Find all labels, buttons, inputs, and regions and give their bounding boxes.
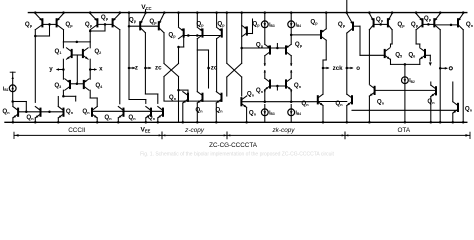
svg-text:Qn: Qn	[148, 114, 156, 121]
svg-text:y: y	[49, 66, 53, 73]
svg-text:Qn: Qn	[104, 114, 112, 121]
svg-text:CCCII: CCCII	[68, 127, 86, 134]
svg-text:Qp: Qp	[129, 17, 137, 24]
svg-text:zc: zc	[155, 65, 162, 72]
svg-text:IB3: IB3	[269, 22, 275, 28]
svg-text:ZC-CG-CCCCTA: ZC-CG-CCCCTA	[209, 142, 258, 149]
svg-text:Qp: Qp	[295, 41, 303, 48]
svg-text:Qn: Qn	[195, 107, 203, 114]
svg-text:o: o	[356, 65, 360, 72]
svg-text:IB2: IB2	[409, 78, 415, 84]
svg-text:Qn: Qn	[294, 82, 302, 89]
svg-text:z: z	[135, 65, 138, 72]
svg-text:Qp: Qp	[149, 18, 157, 25]
svg-text:Q5: Q5	[395, 51, 402, 58]
svg-text:Qn: Qn	[82, 108, 90, 115]
svg-text:Qp: Qp	[338, 21, 346, 28]
svg-text:x: x	[99, 66, 103, 73]
svg-text:Qn: Qn	[256, 87, 264, 94]
svg-text:Q3: Q3	[54, 82, 61, 89]
svg-text:Qp: Qp	[252, 20, 260, 27]
svg-text:Qp: Qp	[85, 21, 93, 28]
svg-text:Qn: Qn	[377, 99, 385, 106]
svg-text:Qn: Qn	[427, 98, 435, 105]
svg-text:VEE: VEE	[141, 126, 151, 133]
svg-text:Qp: Qp	[256, 42, 264, 49]
svg-text:IB4: IB4	[296, 110, 302, 116]
svg-text:Qp: Qp	[25, 21, 33, 28]
svg-text:Q1: Q1	[55, 48, 62, 55]
svg-text:IB3: IB3	[269, 110, 275, 116]
svg-text:Qn: Qn	[66, 108, 74, 115]
svg-text:Q2: Q2	[94, 48, 101, 55]
svg-text:Qn: Qn	[2, 108, 10, 115]
svg-text:Qn: Qn	[169, 94, 177, 101]
svg-text:IB1: IB1	[3, 86, 9, 92]
svg-text:Fig. 1. Schematic of the bipol: Fig. 1. Schematic of the bipolar impleme…	[140, 152, 334, 158]
svg-text:Qp: Qp	[424, 15, 432, 22]
svg-text:OTA: OTA	[397, 127, 410, 134]
svg-text:Qp: Qp	[310, 18, 318, 25]
svg-text:VCC: VCC	[141, 4, 151, 11]
svg-text:Qn: Qn	[465, 106, 473, 113]
svg-text:Qp: Qp	[217, 21, 225, 28]
svg-text:Qn: Qn	[249, 110, 257, 117]
svg-text:Qp: Qp	[376, 16, 384, 23]
svg-text:Qn: Qn	[215, 107, 223, 114]
svg-text:Qp: Qp	[168, 32, 176, 39]
svg-text:zck: zck	[333, 65, 344, 72]
svg-text:IB4: IB4	[296, 22, 302, 28]
svg-text:z-copy: z-copy	[184, 127, 205, 134]
svg-text:Qn: Qn	[128, 114, 136, 121]
svg-text:zc: zc	[211, 65, 218, 72]
svg-text:Qn: Qn	[301, 100, 309, 107]
svg-text:Qn: Qn	[466, 21, 474, 28]
svg-text:Q4: Q4	[95, 82, 103, 89]
svg-text:zk-copy: zk-copy	[271, 127, 295, 134]
svg-text:Qp: Qp	[397, 21, 405, 28]
svg-text:Qp: Qp	[411, 21, 419, 28]
svg-text:Qn: Qn	[247, 91, 255, 98]
svg-text:Qp: Qp	[101, 14, 109, 21]
svg-text:Qp: Qp	[196, 21, 204, 28]
svg-text:Qp: Qp	[65, 21, 73, 28]
svg-text:Q6: Q6	[408, 51, 415, 58]
svg-text:Qn: Qn	[26, 114, 34, 121]
